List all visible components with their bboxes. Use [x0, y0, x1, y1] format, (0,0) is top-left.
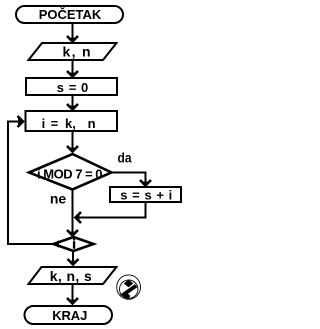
- svg-text:ne: ne: [50, 190, 67, 206]
- svg-text:s = 0: s = 0: [57, 80, 89, 95]
- svg-text:KRAJ: KRAJ: [52, 308, 87, 323]
- svg-text:k, n: k, n: [63, 43, 91, 59]
- svg-text:s = s + i: s = s + i: [120, 188, 172, 203]
- svg-text:i MOD 7 = 0: i MOD 7 = 0: [37, 167, 103, 182]
- svg-text:i=k,n: i=k,n: [42, 116, 96, 131]
- svg-text:POČETAK: POČETAK: [39, 7, 102, 22]
- svg-text:k, n, s: k, n, s: [50, 268, 92, 284]
- svg-text:da: da: [118, 150, 132, 165]
